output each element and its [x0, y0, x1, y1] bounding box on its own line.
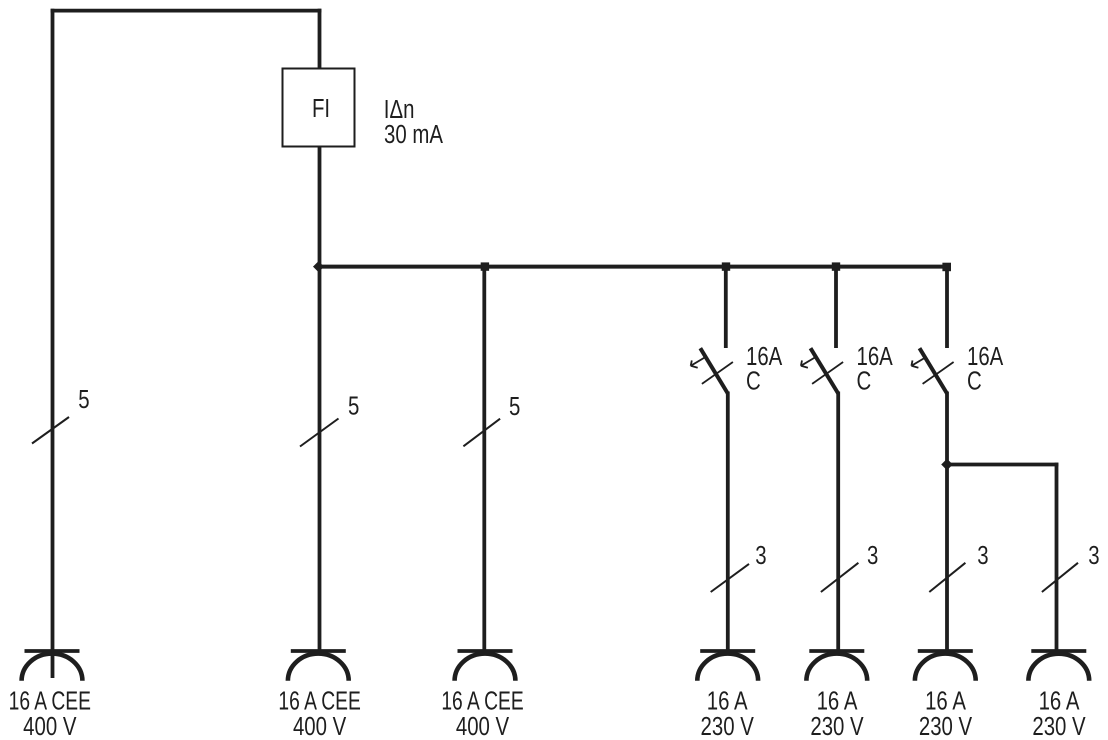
- svg-text:16 A: 16 A: [817, 686, 858, 715]
- svg-text:16 A CEE: 16 A CEE: [278, 687, 360, 715]
- svg-text:5: 5: [509, 392, 520, 421]
- svg-text:3: 3: [867, 541, 878, 570]
- svg-text:16 A: 16 A: [925, 686, 966, 715]
- svg-text:C: C: [857, 366, 872, 395]
- svg-text:230 V: 230 V: [919, 712, 973, 740]
- svg-text:400 V: 400 V: [293, 712, 347, 740]
- svg-text:16 A CEE: 16 A CEE: [9, 687, 91, 715]
- svg-text:16 A CEE: 16 A CEE: [441, 687, 523, 715]
- svg-text:3: 3: [977, 541, 988, 570]
- svg-text:FI: FI: [312, 94, 330, 123]
- svg-text:C: C: [967, 366, 982, 395]
- svg-text:400 V: 400 V: [23, 712, 77, 740]
- svg-text:16 A: 16 A: [1039, 686, 1080, 715]
- svg-text:5: 5: [78, 385, 89, 414]
- svg-text:230 V: 230 V: [810, 712, 864, 740]
- svg-text:400 V: 400 V: [456, 712, 510, 740]
- svg-text:5: 5: [348, 391, 359, 420]
- svg-text:230 V: 230 V: [701, 712, 755, 740]
- svg-text:16 A: 16 A: [707, 686, 748, 715]
- svg-text:230 V: 230 V: [1032, 712, 1086, 740]
- svg-text:30 mA: 30 mA: [384, 120, 443, 149]
- svg-text:C: C: [746, 366, 761, 395]
- svg-text:3: 3: [1088, 541, 1099, 570]
- svg-text:3: 3: [755, 541, 766, 570]
